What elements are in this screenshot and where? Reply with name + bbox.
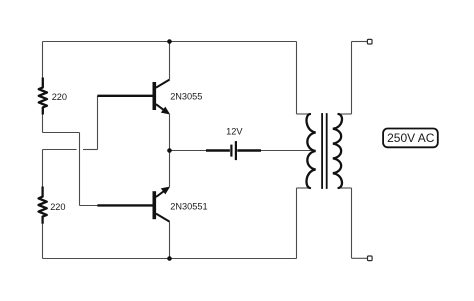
wire secondary vertical bottom — [351, 188, 353, 258]
wire top output terminal lead — [352, 41, 368, 43]
wire center node to Q2 emitter — [169, 151, 171, 187]
wire bottom output terminal lead — [352, 257, 368, 259]
battery B1 — [206, 141, 261, 160]
wire battery right to transformer center tap — [261, 150, 315, 152]
wire bottom rail — [43, 258, 297, 260]
svg-text:2N30551: 2N30551 — [170, 202, 207, 212]
wire battery left — [170, 150, 207, 152]
transistor Q1 emitter arrow — [161, 107, 170, 115]
wire B vertical up to Q1 base — [97, 96, 99, 150]
wire left drop to R1 — [42, 42, 44, 78]
wire R1 bottom to corner — [42, 115, 44, 133]
wire primary bottom lead — [297, 187, 310, 189]
svg-text:250V AC: 250V AC — [387, 131, 435, 145]
wire right vertical top (rail to primary top) — [296, 42, 298, 115]
wire secondary bottom lead — [341, 187, 352, 189]
transistor Q1 — [97, 80, 169, 112]
wire R2 bottom lead — [42, 224, 44, 259]
transformer T1 primary winding — [307, 114, 316, 188]
wire R2 top lead — [42, 150, 44, 187]
node center (emitter junction) — [167, 148, 172, 153]
node top (collector junction) — [167, 39, 172, 44]
svg-text:12V: 12V — [226, 126, 243, 136]
transistor Q2 emitter arrow — [161, 187, 170, 195]
transformer T1 secondary winding — [333, 114, 342, 188]
wire A to Q2 base — [80, 205, 99, 207]
svg-text:220: 220 — [50, 202, 65, 212]
wire Q2 collector to bottom rail — [169, 222, 171, 259]
wire secondary vertical top — [351, 42, 353, 115]
transformer T1 core — [322, 113, 327, 189]
output label box 250V AC — [383, 129, 438, 148]
resistor R2 — [39, 187, 47, 224]
resistor R1 — [39, 78, 47, 115]
node bottom (collector junction) — [167, 256, 172, 261]
terminal bottom output — [368, 256, 373, 261]
transistor Q2 — [97, 190, 169, 222]
wire top rail — [43, 41, 297, 43]
svg-text:220: 220 — [52, 92, 67, 102]
wire right vertical bottom (primary bottom to rail) — [296, 188, 298, 259]
wire A horizontal (R1 to crossover) — [43, 132, 80, 134]
wire Q1 collector drop — [169, 42, 171, 80]
wire primary top lead — [297, 113, 310, 115]
wire secondary top lead — [341, 113, 352, 115]
wire B horizontal left segment (R2 to crossover gap) — [43, 149, 77, 151]
wire A vertical down to Q2 base level — [79, 133, 81, 206]
wire Q1 emitter to center node — [169, 114, 171, 150]
svg-text:2N3055: 2N3055 — [170, 92, 202, 102]
terminal top output — [367, 39, 372, 44]
wire B horizontal right segment (after crossover gap) — [83, 149, 98, 151]
